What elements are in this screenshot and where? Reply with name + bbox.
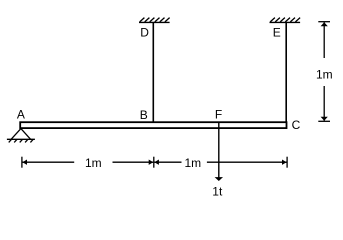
beam ABC	[20, 122, 286, 128]
load arrowhead 1t	[215, 177, 223, 181]
dim arrow right at C	[282, 160, 287, 165]
dim arrows at B	[149, 160, 154, 165]
pin support at A	[7, 129, 35, 143]
svg-text:F: F	[215, 108, 222, 122]
svg-text:1m: 1m	[85, 156, 102, 170]
ceiling support at D	[139, 21, 170, 23]
svg-text:C: C	[292, 118, 301, 132]
svg-text:B: B	[140, 108, 148, 122]
load line at F (wire)	[218, 123, 220, 178]
dim arrow left at A	[22, 160, 27, 165]
svg-text:1t: 1t	[212, 184, 223, 198]
svg-text:D: D	[140, 26, 149, 40]
svg-text:A: A	[17, 108, 25, 122]
svg-text:1m: 1m	[316, 67, 333, 81]
dimension line A-B (wire)	[22, 157, 287, 168]
dim arrow up at top	[321, 22, 328, 26]
rod CE (wire)	[285, 22, 287, 122]
dim arrow down at bottom	[321, 117, 328, 121]
ceiling support at E	[270, 21, 301, 23]
rod BD (wire)	[152, 22, 154, 122]
svg-text:E: E	[273, 26, 281, 40]
svg-text:1m: 1m	[185, 156, 202, 170]
right vertical dimension (wire)	[318, 22, 330, 122]
